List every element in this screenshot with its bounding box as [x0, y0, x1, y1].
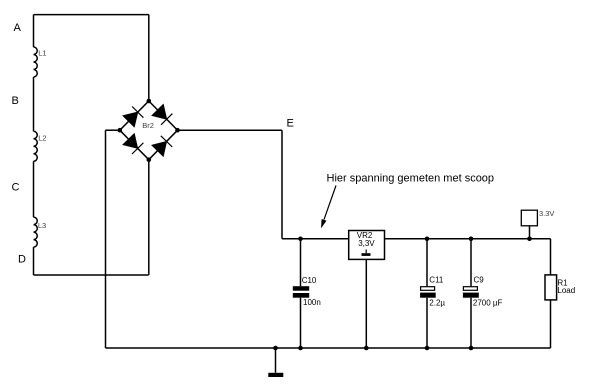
wire left column segment A-L1: [33, 15, 35, 47]
junction bridge bottom: [147, 157, 152, 162]
diode D1 (left node to top node): [123, 107, 143, 128]
svg-text:L1: L1: [38, 48, 46, 57]
junction C11 top rail: [425, 237, 430, 242]
wire C10 bottom: [300, 298, 302, 348]
junction C9 bottom rail: [469, 346, 474, 351]
svg-text:C11: C11: [429, 275, 444, 284]
wire top horizontal A to bridge: [34, 14, 149, 16]
wire left column segment L1-L2: [33, 77, 35, 131]
capacitor C11: [420, 275, 445, 307]
wire top rail right part from VR2 to R1 corner: [385, 238, 551, 240]
annotation arrow: [321, 186, 336, 229]
svg-text:3.3V: 3.3V: [539, 209, 554, 218]
svg-text:Load: Load: [557, 286, 575, 295]
wire top rail left part to VR2: [282, 238, 349, 240]
output box 3.3V: [521, 209, 554, 226]
svg-text:2700 µF: 2700 µF: [473, 298, 503, 307]
wire R1 bottom: [550, 300, 552, 348]
junction C10 top rail: [298, 237, 303, 242]
resistor R1: [545, 275, 575, 300]
svg-text:Br2: Br2: [142, 121, 154, 130]
wire bottom rail: [106, 347, 551, 349]
wire bridge left node to left vertical: [106, 129, 120, 131]
wire C10 top: [300, 239, 302, 286]
junction C10 bottom rail: [298, 346, 303, 351]
svg-text:D: D: [18, 253, 26, 265]
inductor L1: [34, 47, 38, 77]
diode D4 (bottom node to right node): [152, 136, 173, 157]
junction C9 top rail: [469, 237, 474, 242]
diode D3 (left node to bottom node): [123, 134, 143, 155]
svg-text:C: C: [12, 182, 20, 194]
inductor L3: [34, 217, 38, 247]
wire left column segment L2-L3: [33, 161, 35, 217]
wire C9 top: [470, 239, 472, 286]
svg-text:2.2µ: 2.2µ: [429, 298, 445, 307]
junction 3.3V stub rail: [527, 237, 532, 242]
svg-text:E: E: [287, 118, 294, 130]
regulator VR2: [349, 231, 385, 260]
junction bridge left: [118, 128, 123, 133]
ground: [268, 348, 283, 377]
wire right vertical down to bridge top node: [148, 15, 150, 101]
diode D2 (top node to right node): [152, 104, 173, 125]
svg-text:Hier spanning gemeten met scoo: Hier spanning gemeten met scoop: [327, 172, 495, 184]
wire bridge right node to E corner: [178, 129, 283, 131]
inductor L2: [34, 131, 38, 161]
junction C11 bottom rail: [425, 346, 430, 351]
wire E vertical down to top rail: [281, 130, 283, 239]
capacitor C10: [293, 276, 321, 307]
svg-text:A: A: [14, 22, 22, 34]
junction bridge top: [147, 99, 152, 104]
wire left column segment L3-D: [33, 247, 35, 275]
svg-text:C9: C9: [474, 275, 485, 284]
junction bridge right: [175, 128, 180, 133]
svg-text:100n: 100n: [303, 298, 321, 307]
junction ground bottom rail: [273, 346, 278, 351]
capacitor C9: [463, 275, 503, 307]
wire 3.3V box stub: [529, 226, 531, 239]
wire D horizontal to bridge bottom: [34, 274, 149, 276]
wire R1 top: [550, 239, 552, 275]
svg-text:C10: C10: [302, 276, 317, 285]
svg-text:B: B: [12, 95, 19, 107]
bridge Br2 diamond frame: [120, 101, 178, 160]
wire C11 bottom: [426, 298, 428, 348]
junction VR2 bottom rail: [364, 346, 369, 351]
wire VR2 bottom to rail: [365, 259, 367, 348]
wire left vertical down to bottom rail: [105, 130, 107, 348]
wire C9 bottom: [470, 298, 472, 348]
svg-text:L2: L2: [38, 134, 46, 143]
svg-text:L3: L3: [38, 221, 46, 230]
wire bridge bottom node down to D wire: [148, 160, 150, 275]
svg-text:3,3V: 3,3V: [358, 239, 375, 248]
wire C11 top: [426, 239, 428, 286]
